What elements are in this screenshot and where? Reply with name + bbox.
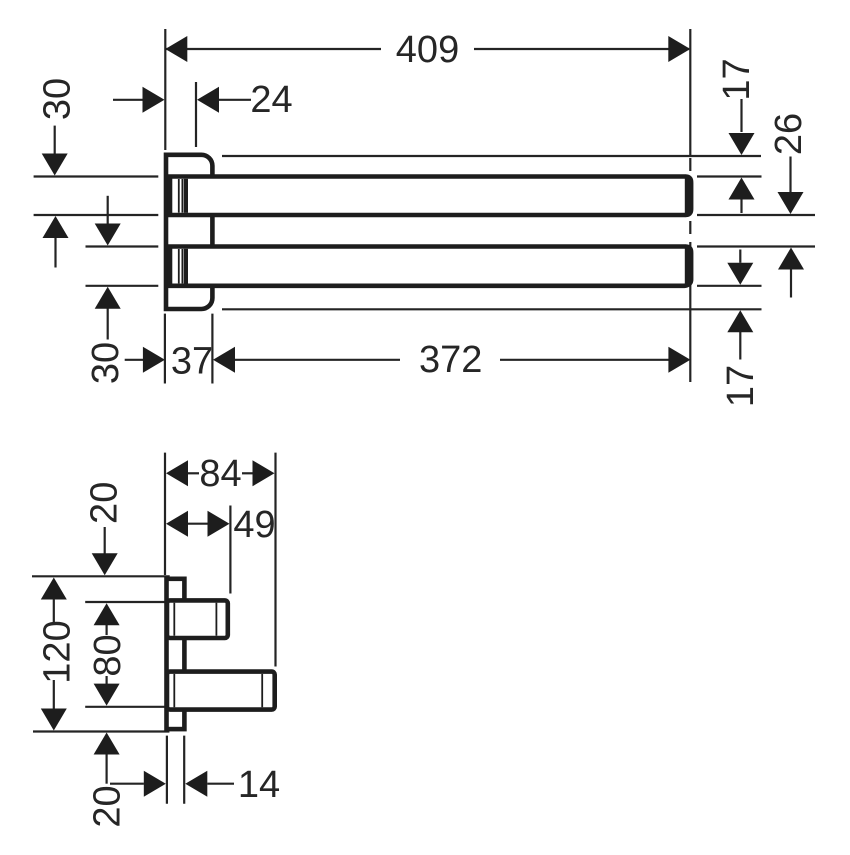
arrow 26 up xyxy=(778,248,804,270)
dimension 372 line right segment xyxy=(500,359,669,361)
dimension 24 line to text xyxy=(219,99,251,101)
extension line arm1 top left (side) xyxy=(85,601,170,603)
extension line side x=165 xyxy=(164,453,166,575)
svg-text:24: 24 xyxy=(250,79,292,121)
dimension 84 line left of text xyxy=(188,472,199,474)
dimension 17 top shaft lower xyxy=(740,200,742,214)
svg-text:37: 37 xyxy=(171,340,213,382)
arrow 17 top down xyxy=(729,133,755,155)
extension line plate top right xyxy=(222,155,761,157)
dimension 49 connector line xyxy=(188,523,209,525)
dimension 17 bottom shaft lower xyxy=(739,332,741,360)
wall plate outline (side view) xyxy=(167,579,185,729)
arrow 372 left xyxy=(213,347,235,373)
dimension 30 bottom shaft lower xyxy=(107,308,109,340)
svg-text:80: 80 xyxy=(87,634,129,676)
arrow 120 up xyxy=(41,578,67,600)
arrow 30 bottom up xyxy=(95,287,121,309)
extension line arm2 bottom left (side) xyxy=(85,706,170,708)
dimension 30 bottom shaft upper xyxy=(107,196,109,225)
extension line bar1 top right xyxy=(697,175,762,177)
towel bar 1 outline xyxy=(170,177,691,216)
extension line plate back face (side) xyxy=(183,736,185,804)
bar 1 pivot joint thick line xyxy=(184,179,188,213)
svg-text:49: 49 xyxy=(233,504,275,546)
lower arm left seam line xyxy=(173,674,175,707)
dimension 80 shaft lower xyxy=(105,676,107,685)
arrow 49 left xyxy=(166,511,188,537)
side view product xyxy=(167,579,275,729)
upper arm outline (side view) xyxy=(167,600,228,638)
dimension 120 shaft lower xyxy=(53,680,55,710)
dimension 26 shaft upper xyxy=(789,157,791,193)
dimension 409 line right segment xyxy=(474,48,689,50)
dimension 30 top shaft upper xyxy=(54,126,56,155)
svg-text:20: 20 xyxy=(86,785,128,827)
dimension 17 top shaft upper xyxy=(740,99,742,132)
arrow 20 bottom up xyxy=(94,733,120,755)
extension line bar1 bottom right xyxy=(697,214,815,216)
arrow 20 top down xyxy=(92,553,118,575)
arrow 37 right-pointing xyxy=(143,347,165,373)
arrow 80 down xyxy=(94,684,120,706)
svg-text:84: 84 xyxy=(199,453,241,495)
arrow 14 left-pointing xyxy=(185,771,207,797)
extension line below plate x=165 xyxy=(164,314,166,384)
extension line bar2 top left xyxy=(86,245,159,247)
dimension 409 line left segment xyxy=(166,48,381,50)
extension line bar2 top right xyxy=(697,245,815,247)
extension line bar2 bottom right xyxy=(697,285,762,287)
upper arm end cap seam line xyxy=(215,603,217,636)
extension line below plate x=212 xyxy=(211,314,213,384)
arrow 14 right-pointing xyxy=(144,771,166,797)
svg-text:26: 26 xyxy=(768,113,810,155)
svg-text:17: 17 xyxy=(716,58,758,100)
arrow 30 top down xyxy=(42,154,68,176)
extension line side x=275.5 xyxy=(274,453,276,667)
arrow 17 top up xyxy=(729,178,755,200)
extension line right x=690 dashed through bars xyxy=(689,158,691,297)
extension line plate front face (side) xyxy=(166,736,168,804)
lower arm outline (side view) xyxy=(167,672,275,710)
dimension 120 shaft upper xyxy=(53,599,55,625)
extension line side x=230.4 xyxy=(229,506,231,594)
svg-text:30: 30 xyxy=(85,342,127,384)
top view product xyxy=(166,155,691,309)
dimension 20 top shaft xyxy=(104,527,106,555)
arrow 84 right xyxy=(253,460,275,486)
wall plate outline (top view) xyxy=(166,155,212,309)
svg-text:17: 17 xyxy=(720,365,762,407)
extension line right x=690 bottom solid xyxy=(689,297,691,382)
svg-text:120: 120 xyxy=(36,620,78,683)
bar 2 pivot seam thin lines xyxy=(178,249,180,283)
dimension 20 bottom shaft xyxy=(105,754,107,784)
arrow 24 outer right xyxy=(197,87,219,113)
arrow 409 left xyxy=(165,36,187,62)
dimension 372 line left segment xyxy=(234,359,400,361)
bar 2 end cap solid block xyxy=(685,244,694,287)
svg-text:30: 30 xyxy=(36,78,78,120)
arrow 17 bottom up xyxy=(727,310,753,332)
arrow 17 bottom down xyxy=(727,263,753,285)
towel bar 2 outline xyxy=(170,247,691,286)
dimension 24 leader line xyxy=(113,99,144,101)
dimension 30 top shaft lower xyxy=(54,238,56,268)
extension line bar2 bottom left xyxy=(86,285,159,287)
bar 1 end cap solid block xyxy=(685,174,694,217)
bar 2 pivot joint thick line xyxy=(184,249,188,284)
arrow 84 left xyxy=(166,460,188,486)
extension line left x=165 (top) xyxy=(164,29,166,150)
arrow 49 right xyxy=(208,511,230,537)
arrow 30 bottom down xyxy=(95,224,121,246)
svg-text:14: 14 xyxy=(238,764,280,806)
extension line x=196 pivot axis xyxy=(195,82,197,147)
arrow 30 top up xyxy=(43,216,69,238)
bar 1 pivot seam thin lines xyxy=(178,179,180,213)
dimension 37 leader line xyxy=(125,359,144,361)
arrow 26 down xyxy=(778,192,804,214)
lower arm end cap seam line xyxy=(261,674,263,707)
arrow 80 up xyxy=(94,603,120,625)
arrow 409 right xyxy=(668,36,690,62)
extension line plate bottom left (side) xyxy=(33,730,169,732)
arrow 372 right xyxy=(668,347,690,373)
extension line right x=690 top solid xyxy=(689,29,691,155)
extension line plate bottom right xyxy=(222,308,762,310)
extension line bar1 top left xyxy=(34,175,159,177)
arrow 120 down xyxy=(41,709,67,731)
dimension 14 line left xyxy=(110,783,144,785)
dimension 26 shaft lower xyxy=(790,270,792,298)
extension line bar1 bottom left xyxy=(34,214,159,216)
svg-text:20: 20 xyxy=(84,482,126,524)
svg-text:372: 372 xyxy=(419,339,482,381)
svg-text:409: 409 xyxy=(396,29,459,71)
dimension 84 line right of text xyxy=(242,472,253,474)
extension line plate top left (side) xyxy=(32,575,170,577)
dimension 14 line right of arrow xyxy=(207,783,234,785)
dimension 17 bottom shaft upper xyxy=(739,250,741,263)
arrow 24 outer left xyxy=(143,87,165,113)
upper arm left seam line xyxy=(173,603,175,636)
dimension 80 shaft upper xyxy=(105,624,107,635)
